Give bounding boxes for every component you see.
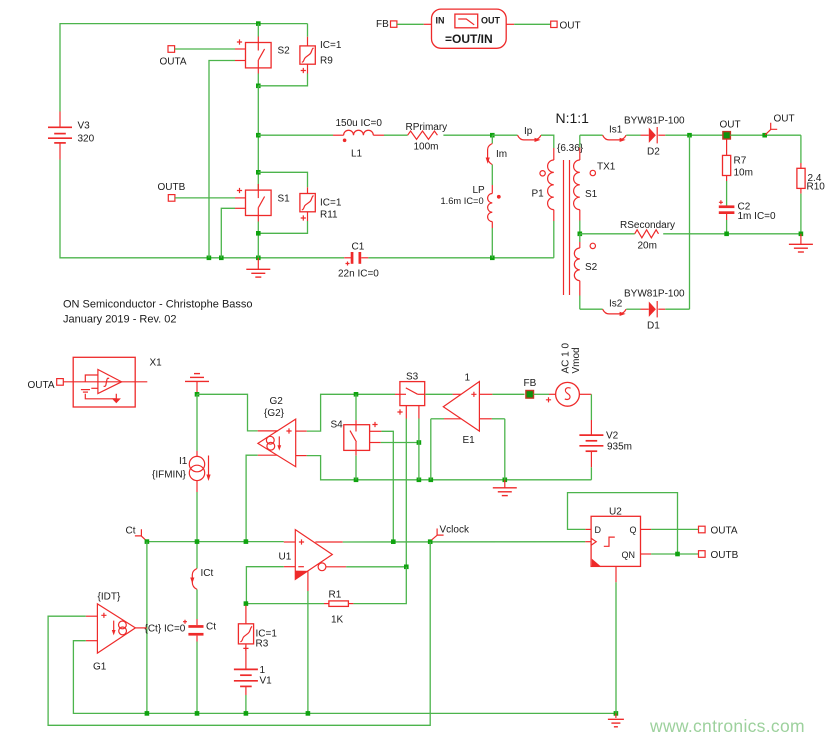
junction rail/G1 branch [145, 711, 150, 716]
wire: S2 top stem [257, 24, 259, 43]
wire: S4 lower terminal to S3 leg [381, 442, 419, 444]
ground symbol (inverted, above I1) [185, 374, 209, 395]
junction D2/D1 rail [687, 133, 692, 138]
current probe Is2 [603, 309, 627, 316]
svg-text:20m: 20m [638, 241, 657, 252]
wire: E1 left leg to rail [430, 419, 432, 480]
svg-text:FB: FB [376, 19, 389, 30]
svg-text:150u IC=0: 150u IC=0 [336, 118, 383, 129]
svg-text:C1: C1 [352, 242, 365, 253]
junction U1 out / S3 leg / R1 [404, 565, 409, 570]
wire: U1 minus input loop [246, 567, 283, 604]
wire: G2 lower-left to Ct rail [246, 455, 258, 541]
svg-text:S4: S4 [331, 420, 344, 431]
transformer secondary winding S2 [574, 234, 595, 309]
ground symbol (E1/V2 rail) [493, 480, 517, 496]
junction QN loop tap [675, 552, 680, 557]
svg-text:N:1:1: N:1:1 [556, 110, 590, 126]
svg-text:BYW81P-100: BYW81P-100 [624, 116, 685, 127]
junction Ct rail left end [145, 539, 150, 544]
svg-text:R11: R11 [320, 210, 338, 221]
svg-text:I1: I1 [179, 456, 188, 467]
vccs G2 [258, 419, 307, 467]
svg-text:OUTB: OUTB [158, 182, 186, 193]
wire: S3 left leg down to U1 output row [405, 419, 407, 567]
wire: U2 clock stub [585, 541, 591, 543]
svg-text:TX1: TX1 [597, 162, 616, 173]
junction S4 bottom on rail [354, 478, 359, 483]
svg-text:ON Semiconductor - Christophe: ON Semiconductor - Christophe Basso [63, 299, 253, 311]
wire: FB pin to transfer block [397, 23, 432, 25]
wire: E1 right leg to ground rail [504, 419, 506, 480]
svg-text:R1: R1 [329, 590, 342, 601]
junction R10 bottom / ground [799, 232, 804, 237]
wire: R10 branch from rail corner [800, 135, 802, 168]
pin FB (top block) [391, 21, 397, 27]
node marker OUT [723, 132, 731, 139]
junction I1 top node [195, 392, 200, 397]
svg-text:D2: D2 [647, 147, 660, 158]
svg-text:BYW81P-100: BYW81P-100 [624, 289, 685, 300]
pin OUTA (left, S2 drive) [168, 46, 175, 53]
resistor R11 (switch init) [258, 172, 315, 233]
transformer secondary winding S1 [574, 135, 596, 234]
svg-text:IN: IN [436, 15, 445, 25]
svg-text:100m: 100m [414, 142, 439, 153]
junction rail/Ct branch [195, 711, 200, 716]
junction clock/S4 [391, 539, 396, 544]
junction L1 tap [256, 133, 261, 138]
wire: V3 bottom to ground rail [60, 160, 344, 258]
svg-text:RSecondary: RSecondary [620, 220, 675, 231]
transformer core TX1 [564, 160, 570, 295]
svg-text:V3: V3 [78, 121, 91, 132]
wire: G1 minus input loop to ground rail [73, 641, 146, 714]
wire: block to OUT pin [506, 23, 551, 25]
wire: D2 to OUT rail junction [665, 134, 723, 136]
current source I1 [189, 394, 210, 568]
svg-text:LP: LP [473, 185, 486, 196]
svg-text:Q: Q [630, 525, 637, 535]
wire: Is1 to D2 [626, 134, 649, 136]
current probe ICt [190, 569, 197, 620]
wire: S1 winding top to Is1 [580, 134, 603, 136]
wire: top rail from V3 to S2/R9 [60, 24, 308, 112]
wire: OUT marker to R10 corner [730, 134, 801, 136]
svg-text:E1: E1 [463, 435, 476, 446]
node marker FB [526, 391, 534, 399]
wire: S1 bottom to junction and rail [257, 216, 259, 258]
svg-text:Vclock: Vclock [440, 525, 470, 536]
battery V1 [234, 669, 258, 713]
svg-text:QN: QN [622, 550, 636, 560]
plus mark AC source [546, 397, 551, 402]
svg-text:=OUT/IN: =OUT/IN [445, 32, 493, 46]
vcvs E1 [425, 382, 504, 432]
svg-text:S2: S2 [278, 46, 291, 57]
capacitor C1 on rail [344, 252, 368, 266]
svg-text:D1: D1 [647, 321, 660, 332]
flip-flop U2 [585, 516, 651, 582]
svg-text:S1: S1 [585, 189, 598, 200]
pin Ct (tick) [135, 529, 147, 541]
battery V3 [48, 112, 72, 160]
svg-text:S2: S2 [585, 262, 598, 273]
junction S2 bottom / R9 [256, 84, 261, 89]
switch S1 [235, 190, 271, 215]
junction rail/V1 branch [244, 711, 249, 716]
svg-text:X1: X1 [150, 358, 163, 369]
svg-text:R3: R3 [256, 639, 269, 650]
pin OUT (top block) [551, 21, 557, 27]
ground symbol bottom right [608, 713, 624, 726]
svg-text:R9: R9 [320, 56, 333, 67]
svg-text:U2: U2 [609, 507, 622, 518]
svg-text:V2: V2 [606, 431, 619, 442]
wire: QN to OUTB pin [651, 553, 698, 555]
svg-text:1: 1 [260, 665, 266, 676]
svg-text:www.cntronics.com: www.cntronics.com [649, 716, 805, 736]
resistor R9 (switch init) [258, 24, 315, 86]
resistor R7 [723, 139, 731, 206]
svg-text:Is1: Is1 [609, 125, 623, 136]
plus mark S2 control [237, 39, 242, 44]
junction Ct rail / I1 branch [195, 539, 200, 544]
transfer-function block =OUT/IN [432, 9, 507, 48]
svg-text:P1: P1 [532, 189, 545, 200]
pin OUTB (left, S1 drive) [168, 195, 175, 202]
svg-text:OUT: OUT [720, 120, 741, 131]
junction C2 bottom [724, 232, 729, 237]
junction LP tap [490, 133, 495, 138]
wire: S2 bottom to junction [257, 68, 259, 86]
capacitor C2 [719, 200, 735, 234]
inductor LP [488, 194, 501, 258]
wire: RSecondary to C2 and R10 [663, 233, 801, 235]
wire: LP junction to Ip [492, 134, 517, 136]
resistor R3 (switch init) [238, 606, 253, 670]
svg-text:Ct: Ct [206, 622, 216, 633]
resistor R1 [246, 601, 354, 607]
wire: diode bus vertical [689, 135, 691, 309]
svg-text:S1: S1 [278, 194, 291, 205]
capacitor Ct [183, 619, 204, 713]
junction R1 / R3 / U1 minus [244, 601, 249, 606]
wire: I1 node to G2 plus input [197, 394, 258, 431]
junction S1 top / R11 [256, 170, 261, 175]
svg-text:{IDT}: {IDT} [98, 592, 121, 603]
junction dots on bottom rail [207, 256, 212, 261]
wire: R1 right leg [353, 567, 406, 604]
junction OUT pin tap [762, 133, 767, 138]
svg-text:G2: G2 [270, 396, 284, 407]
ac source Vmod [556, 382, 580, 406]
svg-text:ICt: ICt [201, 568, 214, 579]
junction E1 right leg / ground on rail [503, 478, 508, 483]
current probe Is1 [603, 135, 627, 142]
svg-text:R10: R10 [807, 182, 826, 193]
svg-text:1.6m IC=0: 1.6m IC=0 [441, 196, 484, 206]
wire: S4 upper terminal down to clock rail [381, 431, 393, 541]
svg-text:OUTA: OUTA [711, 526, 738, 537]
pin OUT (tick) [765, 123, 777, 135]
wire: bottom ground rail [147, 712, 616, 714]
svg-text:1: 1 [465, 373, 471, 384]
vccs G1 [86, 604, 147, 653]
wire: S1 lower ctrl terminal to rail [221, 208, 235, 257]
wire: G2 lower-right to bottom rail [307, 456, 592, 480]
junction top rail / S2 top [256, 21, 261, 26]
svg-text:IC=1: IC=1 [320, 198, 342, 209]
wire: E1 plus input to FB marker [492, 393, 524, 395]
svg-text:320: 320 [78, 134, 95, 145]
wire: Ct rail [147, 541, 284, 543]
svg-text:Ct: Ct [126, 526, 136, 537]
inductor L1 [343, 130, 373, 142]
wire: Is2 to D1 [626, 308, 649, 310]
wire: Ip to primary P1 [541, 135, 554, 148]
wire: switch node to L1 [258, 134, 333, 136]
svg-text:{IFMIN}: {IFMIN} [152, 470, 187, 481]
wire: OUTB pin to S1 [175, 197, 246, 199]
svg-text:22n IC=0: 22n IC=0 [338, 269, 379, 280]
svg-text:OUTB: OUTB [711, 550, 739, 561]
wire: U1 ground pin to bottom rail [307, 591, 309, 713]
battery V2 [579, 435, 603, 480]
svg-text:10m: 10m [734, 167, 753, 178]
svg-text:OUT: OUT [560, 21, 581, 32]
wire: S3 right leg down to rail [418, 419, 420, 480]
svg-text:OUT: OUT [481, 15, 501, 25]
svg-text:OUT: OUT [774, 114, 795, 125]
svg-text:Is2: Is2 [609, 299, 623, 310]
pin OUTB (right) [699, 551, 706, 558]
resistor R10 [797, 168, 805, 234]
svg-text:OUTA: OUTA [28, 380, 55, 391]
resistor RPrimary [408, 131, 438, 139]
junction Ct rail / G2 branch [244, 539, 249, 544]
switch S3 [395, 382, 425, 419]
pin Vclock (tick) [432, 529, 444, 540]
junction rail/U2 ground [614, 711, 619, 716]
wire: S2 lower ctrl terminal down to rail [209, 61, 235, 258]
wire: RPrimary to LP junction [443, 134, 492, 136]
junction rail/U1 ground [306, 711, 311, 716]
svg-text:D: D [595, 525, 602, 535]
wire: U1 output (clock) to U2 [343, 541, 586, 543]
svg-text:RPrimary: RPrimary [406, 122, 448, 133]
wire: D1 to diode bus [665, 308, 689, 310]
wire: RSecondary row left [580, 233, 635, 235]
svg-text:1K: 1K [331, 615, 344, 626]
junction Vclock [428, 539, 433, 544]
pin OUTA (right) [699, 526, 706, 533]
junction S1 bottom / R11 [256, 231, 261, 236]
wire: U1 inverted output row [346, 566, 406, 568]
svg-text:1m IC=0: 1m IC=0 [738, 211, 777, 222]
svg-text:FB: FB [524, 378, 537, 389]
svg-text:935m: 935m [607, 442, 632, 453]
wire: AC source to V2 [579, 394, 591, 435]
svg-text:OUTA: OUTA [160, 57, 187, 68]
switch S2 [235, 43, 271, 68]
junction S4 top tap [354, 392, 359, 397]
junction S3 branch on rail [417, 478, 422, 483]
svg-text:G1: G1 [93, 662, 107, 673]
transformer primary P1 [540, 148, 554, 258]
svg-text:Im: Im [496, 149, 507, 160]
subcircuit X1 [63, 357, 147, 407]
svg-text:U1: U1 [279, 552, 292, 563]
diode D2 BYW81P-100 [649, 127, 666, 143]
svg-text:{Ct} IC=0: {Ct} IC=0 [145, 624, 186, 635]
pin OUTA (bottom left) [57, 379, 64, 386]
plus mark S1 control [237, 188, 242, 193]
switch S4 [344, 394, 382, 480]
svg-text:Vmod: Vmod [571, 347, 582, 373]
svg-text:January 2019 - Rev. 02: January 2019 - Rev. 02 [63, 314, 177, 326]
junction S4/S3 leg [417, 440, 422, 445]
wire: G1 plus input loop to Vclock rail [48, 542, 430, 726]
wire: S2 winding bottom to Is2 [580, 308, 603, 310]
svg-text:S3: S3 [406, 372, 419, 383]
wire: G2 upper-right to S3/S4 node [307, 394, 395, 431]
svg-text:L1: L1 [351, 149, 363, 160]
wire: U2 ground pin to rail [615, 582, 617, 713]
current probe Ip [518, 135, 542, 142]
current probe Im [486, 135, 493, 193]
junction E1 left leg on rail [429, 478, 434, 483]
comparator U1 [284, 530, 346, 591]
wire: OUTA pin to S2 [175, 48, 235, 50]
diode D1 BYW81P-100 [649, 301, 666, 317]
resistor RSecondary [635, 230, 659, 238]
svg-text:{G2}: {G2} [264, 408, 285, 419]
wire: L1 to RPrimary [373, 134, 384, 136]
wire: S1 top stem red [257, 184, 259, 190]
svg-text:V1: V1 [260, 676, 273, 687]
wire: Ct vertical to G1 and bottom rail [146, 542, 148, 714]
svg-text:IC=1: IC=1 [320, 40, 342, 51]
svg-text:Ip: Ip [524, 126, 533, 137]
wire: ground rail right part after C1 [368, 257, 554, 259]
wire: Q to OUTA pin [651, 528, 698, 530]
wire: QN feedback loop to D [568, 493, 678, 554]
wire: half-bridge mid vertical S2 bottom to S1 top [257, 86, 259, 190]
ground symbol main power stage [246, 258, 270, 277]
ground symbol secondary [789, 234, 813, 252]
svg-text:R7: R7 [734, 155, 747, 166]
junction secondary mid tap [578, 232, 583, 237]
wire: FB marker to AC source [534, 393, 556, 395]
